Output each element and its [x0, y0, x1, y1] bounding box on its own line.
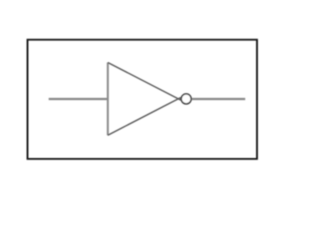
- wire input: [49, 98, 108, 100]
- inverter gate triangle: [108, 63, 181, 136]
- wire output: [192, 98, 245, 100]
- inversion bubble: [181, 94, 191, 104]
